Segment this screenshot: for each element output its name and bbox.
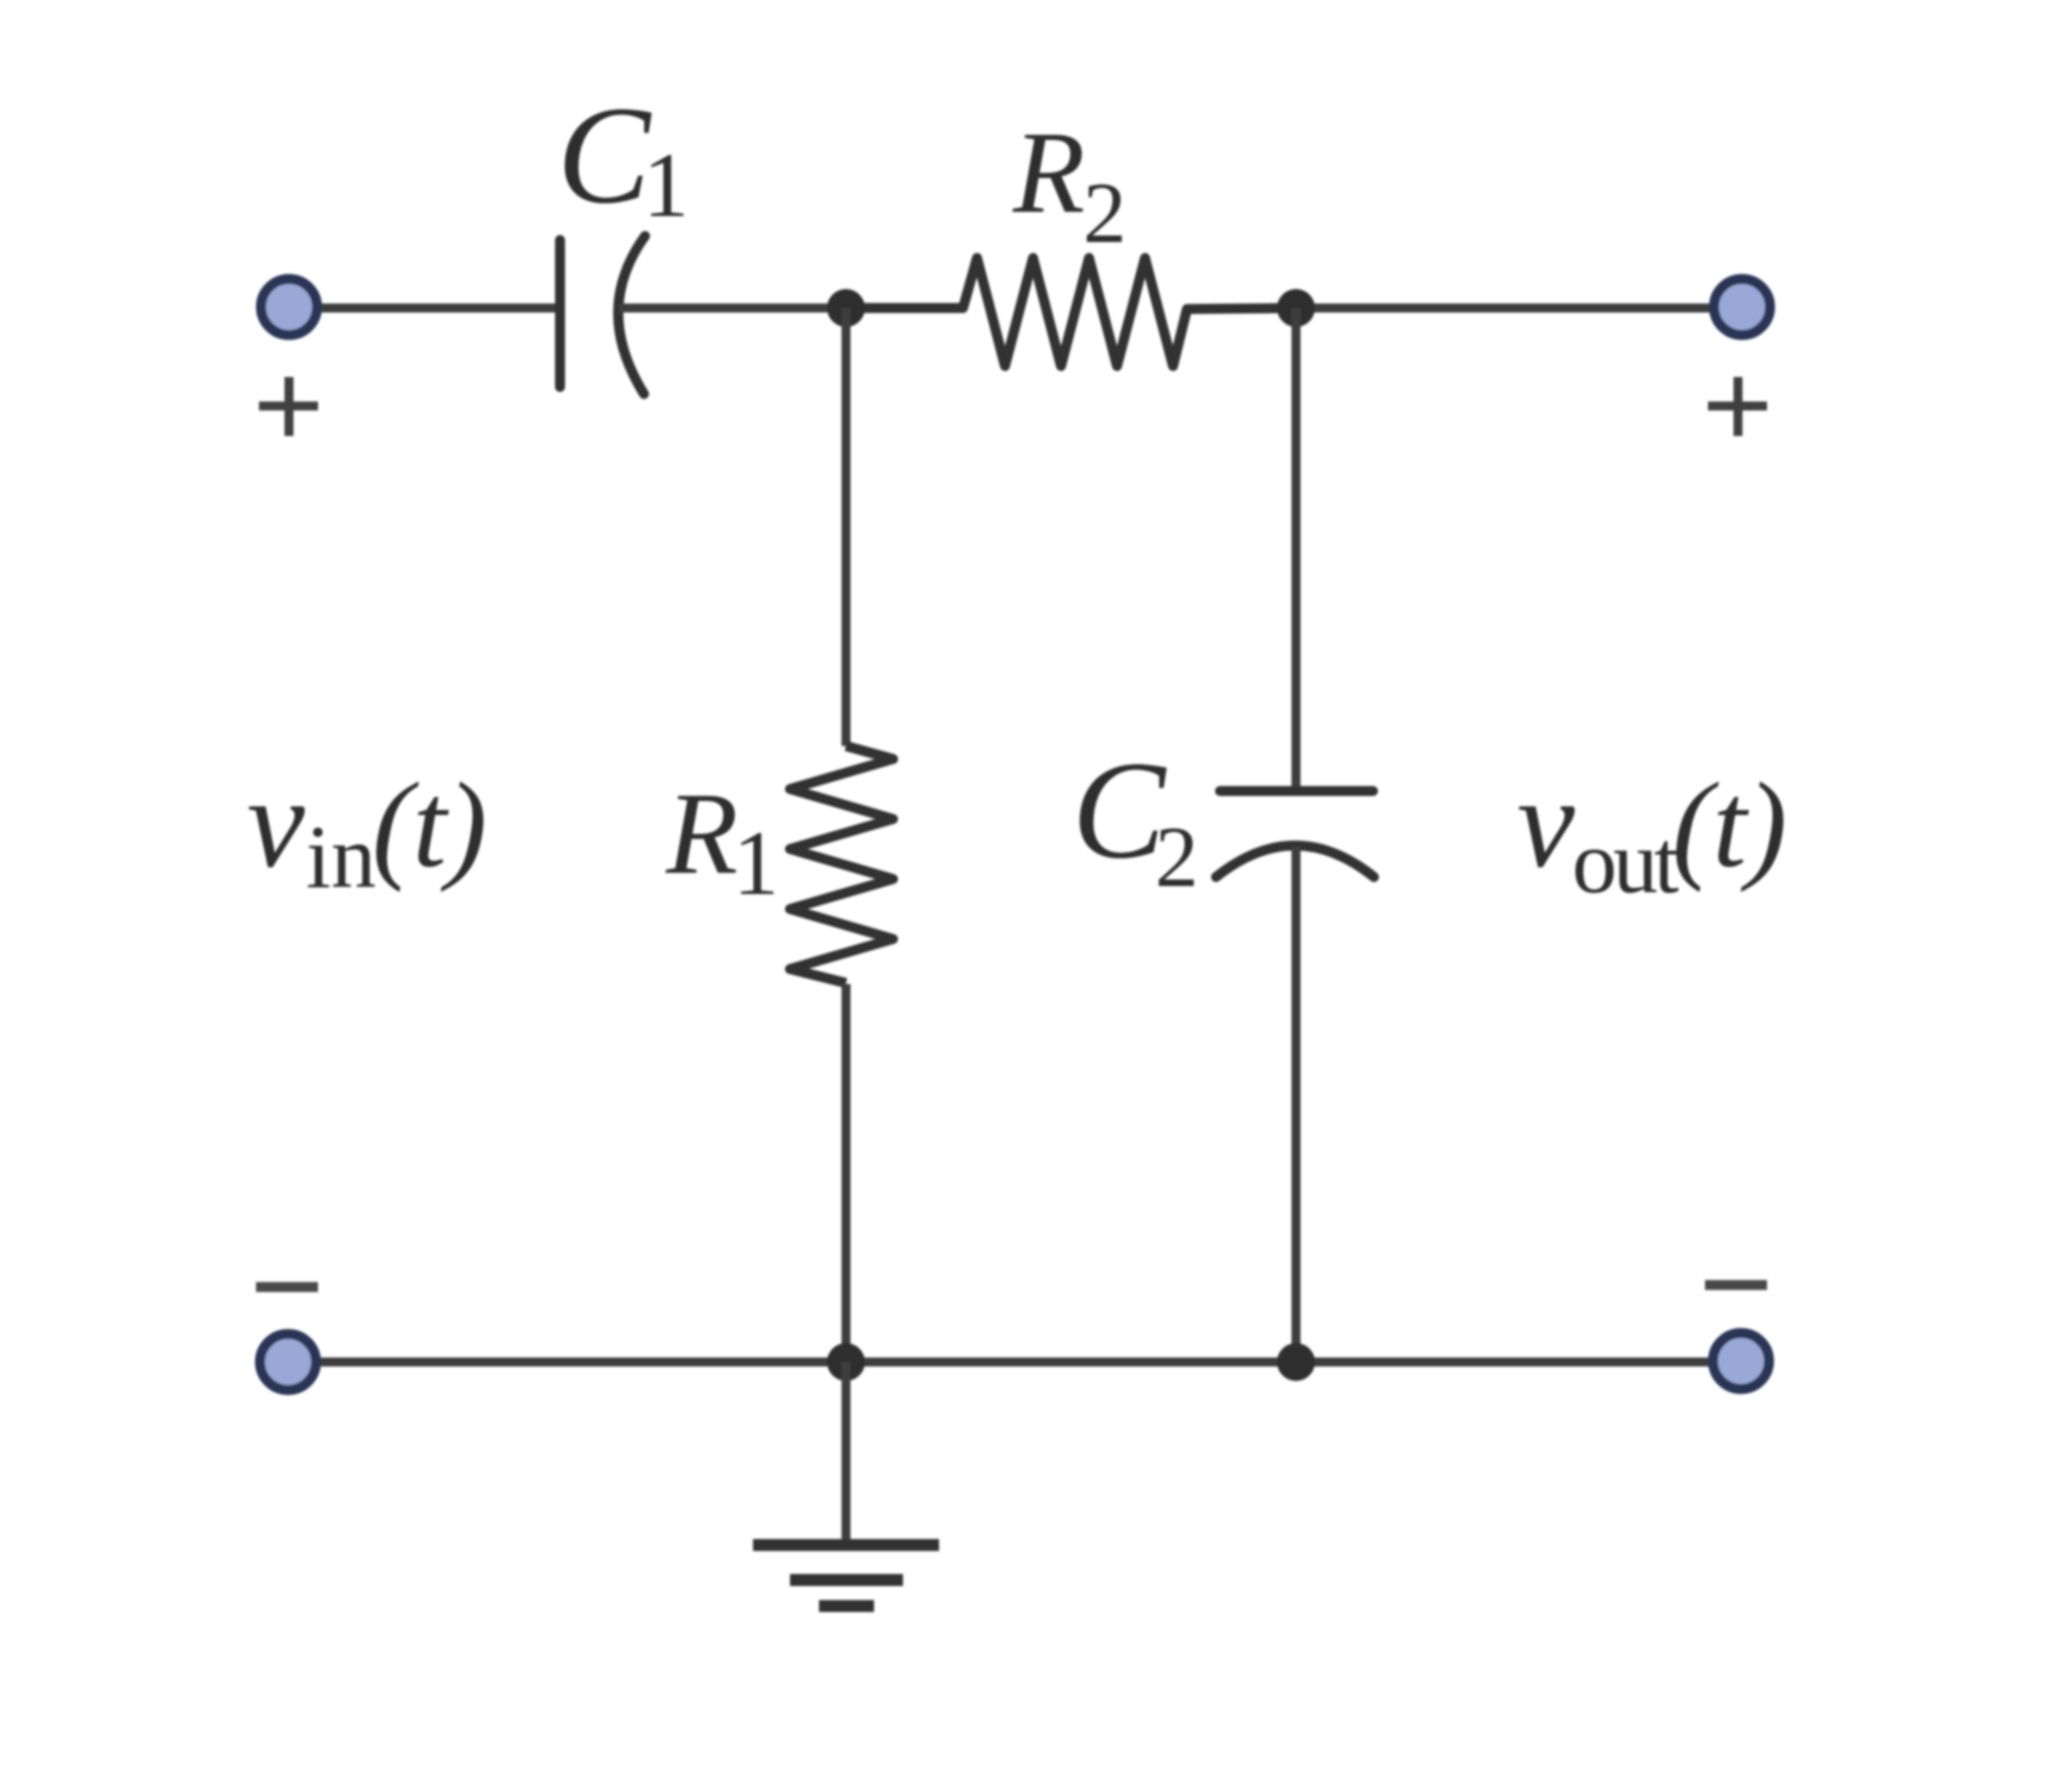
svg-text:2: 2 xyxy=(1083,164,1127,261)
plus sign left xyxy=(259,377,318,436)
plus sign right xyxy=(1708,377,1767,436)
svg-text:(t): (t) xyxy=(372,758,487,893)
ground xyxy=(753,1545,939,1606)
wire: ground stub xyxy=(842,1362,851,1543)
bottom node at C2 junction dot xyxy=(1277,1343,1315,1381)
output terminal bottom (-) xyxy=(1713,1333,1769,1389)
input terminal bottom (-) xyxy=(260,1334,316,1390)
capacitor C1 xyxy=(560,236,645,394)
svg-text:in: in xyxy=(306,808,376,907)
node B junction dot xyxy=(1277,289,1315,327)
resistor R2 xyxy=(846,258,1296,366)
node A junction dot xyxy=(827,289,865,327)
svg-text:out: out xyxy=(1572,813,1679,912)
svg-text:v: v xyxy=(247,751,305,895)
wire: node B down to C2 top plate xyxy=(1292,308,1301,791)
resistor R1 xyxy=(790,746,893,983)
wire: C2 down to bottom rail xyxy=(1292,846,1301,1362)
wire: R1 down to bottom rail xyxy=(842,984,851,1362)
input terminal top (+) xyxy=(261,279,317,335)
bottom node at R1 junction dot xyxy=(827,1343,865,1381)
svg-text:1: 1 xyxy=(643,134,689,236)
wire: node B to output terminal xyxy=(1296,304,1713,313)
svg-text:C: C xyxy=(557,78,652,233)
svg-text:R: R xyxy=(1012,107,1085,238)
wire: C1 to node A xyxy=(619,304,846,313)
capacitor C2 xyxy=(1216,791,1374,877)
svg-text:(t): (t) xyxy=(1672,758,1787,893)
svg-text:C: C xyxy=(1072,733,1167,888)
minus sign right xyxy=(1705,1280,1767,1290)
svg-text:R: R xyxy=(665,768,738,899)
wire: node A down to R1 xyxy=(842,308,851,746)
svg-text:2: 2 xyxy=(1155,808,1199,905)
svg-text:v: v xyxy=(1517,751,1575,895)
output terminal top (+) xyxy=(1714,279,1770,335)
svg-text:1: 1 xyxy=(733,812,779,914)
minus sign left xyxy=(256,1282,318,1292)
wire top-left: input terminal to C1 left plate xyxy=(318,304,560,313)
bottom rail wire xyxy=(317,1358,1712,1367)
